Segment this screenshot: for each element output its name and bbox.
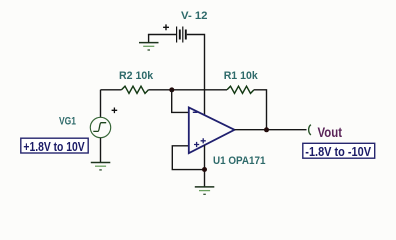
wire R2 to R1 (inverting node line) [149, 89, 228, 91]
svg-text:+1.8V to 10V: +1.8V to 10V [23, 139, 85, 154]
node junction V+ ground [202, 167, 207, 172]
svg-text:R1 10k: R1 10k [224, 70, 259, 82]
wire output [235, 129, 307, 131]
annotation box +1.8V to 10V [21, 138, 88, 153]
svg-text:-1.8V to -10V: -1.8V to -10V [305, 144, 371, 159]
wire VG1 to ground [100, 138, 102, 163]
svg-text:U1 OPA171: U1 OPA171 [213, 155, 266, 167]
wire op-amp V+ pin down [204, 145, 206, 186]
battery polarity + [163, 24, 169, 30]
wire junction to inverting input [172, 90, 188, 113]
output terminal Vout [309, 125, 311, 135]
node junction inverting input [169, 87, 174, 92]
node junction output [264, 127, 269, 132]
op-amp non-inverting mark + [194, 142, 199, 147]
ground (VG1) [91, 163, 111, 170]
svg-text:R2 10k: R2 10k [119, 70, 154, 82]
wire non-inverting input loop to ground node [172, 146, 204, 170]
ground (op-amp V+) [195, 187, 215, 194]
voltage source VG1 [90, 108, 117, 138]
op-amp U1 triangle [189, 108, 235, 154]
resistor R1 [227, 86, 254, 93]
wire VG1 to R2 [101, 90, 122, 118]
op-amp V+ pin mark + [201, 138, 206, 143]
svg-text:VG1: VG1 [59, 115, 76, 127]
resistor R2 [122, 86, 149, 93]
ground (battery, top left) [139, 35, 159, 51]
op-amp inverting mark - [193, 111, 198, 113]
wire battery left [148, 34, 176, 36]
wire R1 to output node [254, 90, 267, 130]
annotation box -1.8V to -10V [303, 143, 375, 158]
battery V- (plates) [177, 27, 186, 43]
svg-text:Vout: Vout [318, 125, 343, 140]
wire battery right to op-amp V- pin [187, 35, 205, 116]
svg-text:V- 12: V- 12 [181, 10, 208, 22]
